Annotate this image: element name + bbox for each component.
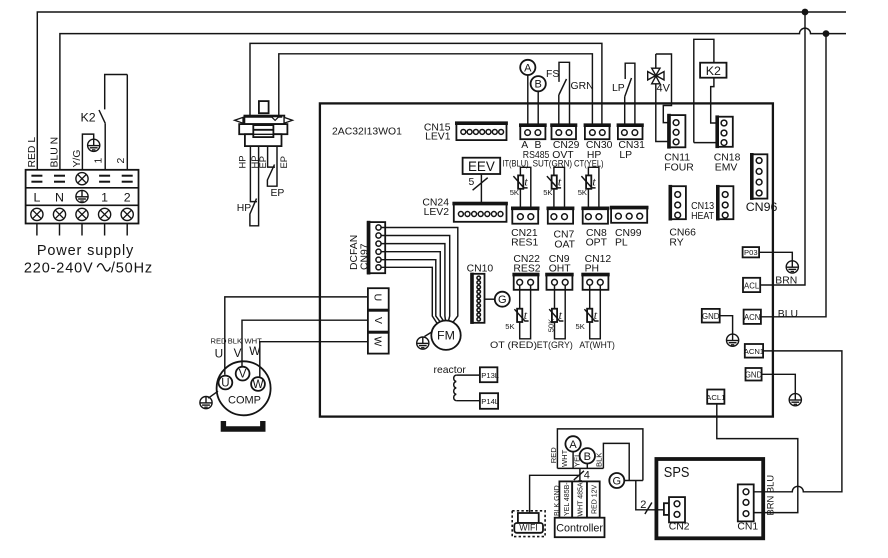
svg-text:RY: RY: [669, 237, 683, 248]
valve arrow left: [235, 117, 243, 123]
cable bus controller: [557, 467, 603, 469]
svg-text:U: U: [221, 378, 229, 390]
wire K2 to CN18 top pin: [711, 78, 721, 123]
relay K2 box: [694, 39, 714, 142]
PCB main board outline: [320, 103, 773, 416]
terminal ACL: [743, 278, 760, 292]
svg-text:A: A: [569, 439, 577, 451]
wire 4-cable bundle: [579, 468, 581, 481]
switch LP low pressure: [625, 78, 632, 97]
svg-text:SPS: SPS: [664, 465, 690, 481]
svg-text:OPT: OPT: [586, 238, 608, 249]
svg-text:EMV: EMV: [715, 163, 738, 174]
wire CN97 pin3 to FM: [381, 244, 445, 321]
thermistor OT(RED): [520, 285, 531, 338]
wire G to node: [624, 480, 643, 482]
svg-text:RED: RED: [549, 447, 558, 464]
wire FS to CN29: [558, 95, 560, 131]
wire WHT to A: [572, 451, 574, 468]
svg-text:SUT(GRN): SUT(GRN): [533, 158, 573, 169]
ground earth BRN: [786, 261, 798, 273]
bracket COMP mount: [223, 421, 262, 429]
svg-text:BLU N: BLU N: [49, 137, 60, 168]
box Controller: [555, 518, 605, 538]
wire reactor to P13: [456, 374, 480, 376]
svg-text:V: V: [239, 369, 247, 381]
svg-text:YEL: YEL: [572, 453, 581, 467]
svg-text:G: G: [498, 294, 507, 306]
svg-text:2AC32I13WO1: 2AC32I13WO1: [332, 126, 402, 137]
ground earth GND left: [727, 334, 739, 346]
wire WIFI to bundle: [530, 475, 580, 513]
svg-text:EP: EP: [257, 156, 268, 169]
svg-text:50K: 50K: [546, 319, 555, 333]
wire CN97 pin1 to FM: [381, 228, 458, 323]
svg-text:LP: LP: [612, 83, 625, 94]
svg-text:2: 2: [124, 190, 131, 204]
svg-text:ACN: ACN: [744, 313, 760, 322]
svg-text:P03: P03: [744, 248, 758, 257]
wire CN97 pin2 to FM: [381, 236, 450, 321]
wire stubs below terminal block: [37, 224, 127, 236]
connector CN31 LP: [618, 125, 643, 140]
wire N supply second line with hop over ACL wire: [60, 28, 846, 169]
connector CN18 EMV: [716, 117, 732, 147]
svg-text:5K: 5K: [578, 188, 587, 197]
terminal GND right: [746, 368, 762, 381]
wire L supply top line: [37, 12, 846, 170]
connector CN66 RY: [669, 186, 686, 219]
connector CN96: [751, 154, 768, 198]
svg-text:COMP: COMP: [228, 395, 261, 407]
svg-text:P13L: P13L: [481, 371, 499, 380]
valve assembly top nub: [259, 101, 269, 113]
svg-text:GRN: GRN: [571, 81, 594, 92]
valve assembly inner rect: [253, 125, 273, 137]
wire P03 to earth BRN: [759, 252, 792, 260]
switch FS float switch: [559, 79, 567, 95]
svg-text:1: 1: [94, 158, 105, 164]
motor FM fan: [431, 321, 460, 350]
thermistor ET(GRY): [555, 285, 566, 338]
terminal circle A: [520, 60, 535, 75]
connector CN30 HP: [585, 125, 610, 140]
terminal circle A lower: [565, 436, 580, 451]
svg-text:WIFI: WIFI: [519, 523, 538, 533]
terminal block power supply: [26, 170, 139, 224]
svg-text:EP: EP: [271, 188, 285, 199]
svg-text:5K: 5K: [510, 188, 519, 197]
svg-text:P14L: P14L: [481, 397, 499, 406]
connector CN29 OVT: [552, 125, 577, 140]
valve arrow down small: [271, 117, 279, 121]
svg-text:EP: EP: [278, 156, 289, 169]
ground earth FM: [417, 337, 429, 349]
svg-text:EEV: EEV: [468, 159, 495, 174]
valve assembly lower body: [245, 134, 282, 146]
connector RS485: [520, 125, 545, 140]
motor COMP compressor: [217, 361, 271, 415]
wire B to RS485: [537, 91, 539, 131]
terminal P03: [743, 247, 760, 257]
terminal block bottom row screw symbols: [31, 208, 43, 220]
wire EP switch left leg: [268, 147, 275, 167]
svg-text:K2: K2: [81, 111, 96, 125]
svg-text:W: W: [253, 379, 264, 391]
connector CN13: [717, 186, 734, 219]
node junction L line to ACL wire: [802, 9, 809, 16]
svg-text:2: 2: [116, 158, 127, 164]
wire ACN to supply line N: [761, 34, 826, 317]
terminal GND left: [702, 309, 720, 323]
connector WIFI plug: [518, 513, 539, 523]
valve coil 4V symbol: [656, 54, 672, 123]
wire CN10 to G: [485, 298, 495, 300]
svg-text:RED: RED: [211, 336, 228, 345]
svg-text:ET(GRY): ET(GRY): [537, 339, 573, 350]
terminal box U: [368, 288, 389, 309]
svg-text:reactor: reactor: [434, 365, 467, 376]
wire terminal 1 to K2 switch: [104, 123, 106, 169]
svg-text:B: B: [584, 451, 591, 463]
connector CN99 PL: [611, 207, 647, 223]
svg-text:FOUR: FOUR: [664, 163, 694, 174]
svg-text:BRN BLU: BRN BLU: [765, 475, 776, 516]
wire RED 12V loop: [557, 429, 643, 481]
svg-text:ACL1: ACL1: [706, 393, 725, 402]
svg-text:CN1: CN1: [737, 522, 758, 533]
svg-text:GND: GND: [745, 370, 763, 379]
svg-text:5K: 5K: [505, 322, 514, 331]
wire YEL to B: [586, 463, 588, 468]
svg-text:A: A: [524, 62, 532, 74]
svg-text:FS: FS: [546, 69, 559, 80]
svg-text:B: B: [535, 79, 542, 91]
svg-text:LP: LP: [619, 150, 632, 161]
svg-text:L: L: [33, 190, 40, 204]
svg-text:RES2: RES2: [513, 263, 540, 274]
svg-text:5: 5: [469, 177, 475, 188]
connector CN21 RES1: [512, 208, 538, 224]
svg-text:FM: FM: [437, 329, 455, 343]
wire node to CN2: [636, 481, 664, 510]
wire Y/G earth: [82, 134, 93, 169]
svg-text:W: W: [249, 344, 261, 358]
wire ACL to supply line L: [760, 12, 805, 285]
connector CN8 OPT: [583, 208, 608, 224]
svg-text:V: V: [372, 317, 383, 324]
svg-text:220-240V: 220-240V: [24, 260, 94, 276]
wire ACL1 to CN1 bottom pin: [717, 404, 798, 513]
svg-text:OHT: OHT: [549, 263, 572, 274]
svg-text:HP: HP: [236, 155, 247, 168]
svg-text:AT(WHT): AT(WHT): [579, 339, 614, 350]
terminal circle B lower: [580, 448, 595, 463]
cable marker RED 12V: [587, 481, 600, 517]
wire ACN1 to CN1 top pin: [749, 351, 842, 492]
svg-text:CN2: CN2: [669, 522, 690, 533]
svg-text:YEL 485B-: YEL 485B-: [564, 482, 571, 516]
svg-text:LEV2: LEV2: [424, 207, 450, 218]
switch EP: [267, 147, 277, 186]
terminal circle B: [531, 76, 546, 91]
terminal P14L: [480, 393, 498, 409]
svg-text:CN96: CN96: [746, 200, 778, 214]
svg-text:DCFAN: DCFAN: [349, 235, 360, 270]
wire GND to earth: [720, 316, 733, 334]
connector CN7 OAT: [548, 208, 573, 224]
cable marker WHT 485A+: [572, 481, 587, 517]
svg-text:BLK: BLK: [228, 336, 242, 345]
svg-text:N: N: [55, 190, 64, 204]
connector CN2: [664, 503, 669, 515]
svg-text:GND: GND: [702, 312, 720, 321]
terminal ACN1: [745, 344, 763, 358]
svg-text:BLK: BLK: [595, 453, 604, 467]
cable marker YEL 485B-: [559, 481, 572, 517]
ground earth Y/G: [88, 139, 100, 151]
thermistor AT(WHT): [590, 285, 601, 338]
svg-text:RED L: RED L: [27, 137, 38, 168]
switch K2: [99, 110, 105, 123]
wire CN97 pin5 to FM: [381, 260, 440, 323]
box WIFI: [514, 523, 543, 533]
svg-text:U: U: [215, 347, 224, 361]
svg-text:PL: PL: [615, 238, 628, 249]
terminal circle G lower: [609, 473, 624, 488]
wire HP switch left leg: [250, 147, 257, 202]
wire W COMP to box: [260, 342, 368, 377]
box SPS power supply: [656, 459, 763, 538]
terminal P13L: [480, 367, 498, 382]
wire LP to CN31: [624, 97, 626, 131]
wire EEV to CN24: [480, 174, 482, 203]
svg-text:PH: PH: [585, 263, 599, 274]
svg-text:Controller: Controller: [556, 523, 603, 535]
wire reactor to P14: [456, 400, 480, 402]
svg-text:OT (RED): OT (RED): [490, 339, 537, 350]
device EEV box: [463, 158, 501, 174]
connector CN1: [738, 484, 754, 521]
wire GND to earth bottom: [762, 374, 796, 393]
wire HP line from CN30 right pin: [250, 43, 602, 131]
svg-text:OAT: OAT: [554, 239, 575, 250]
svg-text:4V: 4V: [657, 82, 671, 94]
svg-text:K2: K2: [706, 64, 721, 78]
svg-text:G: G: [613, 476, 622, 488]
svg-text:V: V: [234, 346, 242, 360]
svg-text:2: 2: [640, 499, 646, 511]
svg-text:ACN1: ACN1: [744, 347, 764, 356]
ground earth GND bottom: [789, 394, 801, 406]
connector CN11 FOUR: [668, 115, 685, 147]
svg-text:RED 12V: RED 12V: [592, 484, 599, 514]
svg-text:ACL: ACL: [744, 281, 760, 290]
box WIFI dashed: [512, 511, 545, 537]
svg-text:WHT 485A+: WHT 485A+: [578, 478, 585, 516]
node junction N line to ACN wire: [823, 30, 830, 37]
svg-text:4: 4: [584, 469, 590, 481]
terminal circle G fan ground: [495, 292, 510, 307]
svg-text:BLU: BLU: [778, 309, 798, 320]
valve arrow right: [284, 117, 292, 123]
svg-text:U: U: [372, 294, 383, 302]
svg-text:Power supply: Power supply: [37, 243, 134, 259]
svg-text:RES1: RES1: [511, 238, 538, 249]
svg-text:W: W: [372, 337, 383, 347]
terminal box V: [368, 311, 389, 332]
svg-text:WHT: WHT: [560, 449, 569, 467]
svg-text:5K: 5K: [576, 322, 585, 331]
svg-text:HP: HP: [237, 203, 252, 214]
switch HP: [250, 147, 259, 226]
svg-text:5K: 5K: [543, 188, 552, 197]
wire V COMP to box: [242, 320, 368, 366]
svg-text:1: 1: [101, 190, 108, 204]
terminal block top row symbols: [31, 176, 132, 182]
wire CN97 pin4 to FM: [381, 252, 443, 321]
wire HP line from CN30 left pin: [279, 54, 593, 131]
terminal ACN: [744, 310, 761, 324]
wire terminal 2 riser: [126, 75, 128, 170]
wire U COMP to box: [225, 297, 368, 375]
wire CN97 pin6 to FM: [381, 267, 437, 324]
svg-text:/50Hz: /50Hz: [111, 260, 153, 276]
svg-text:Y/G: Y/G: [72, 150, 83, 168]
inductor reactor coil: [454, 375, 456, 401]
svg-text:HEAT: HEAT: [691, 211, 715, 222]
valve assembly top bar: [244, 116, 284, 125]
svg-text:LEV1: LEV1: [425, 132, 451, 143]
wire BLK GND loop: [603, 443, 629, 480]
ground earth COMP: [200, 397, 212, 409]
wire A to RS485: [527, 75, 529, 131]
terminal box W: [368, 333, 389, 354]
wire K2 bracket to CN18 bottom pin: [694, 142, 721, 144]
valve assembly mid body: [239, 124, 287, 134]
terminal ACL1: [707, 390, 724, 404]
